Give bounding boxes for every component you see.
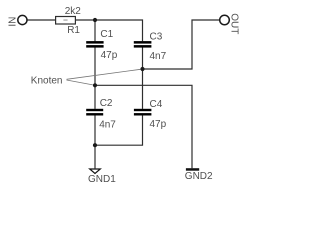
svg-text:Knoten: Knoten — [31, 76, 63, 87]
svg-text:2k2: 2k2 — [65, 6, 82, 17]
svg-text:C3: C3 — [150, 31, 163, 42]
svg-text:C2: C2 — [100, 98, 113, 109]
svg-text:OUT: OUT — [228, 13, 239, 34]
svg-text:4n7: 4n7 — [99, 120, 116, 131]
svg-text:IN: IN — [7, 17, 18, 27]
svg-text:C1: C1 — [100, 29, 113, 40]
svg-text:4n7: 4n7 — [150, 51, 167, 62]
svg-text:R1: R1 — [67, 25, 80, 36]
svg-text:GND1: GND1 — [88, 174, 116, 185]
svg-text:47p: 47p — [101, 50, 118, 61]
svg-text:47p: 47p — [150, 119, 167, 130]
svg-text:C4: C4 — [150, 99, 163, 110]
svg-text:GND2: GND2 — [185, 171, 213, 182]
